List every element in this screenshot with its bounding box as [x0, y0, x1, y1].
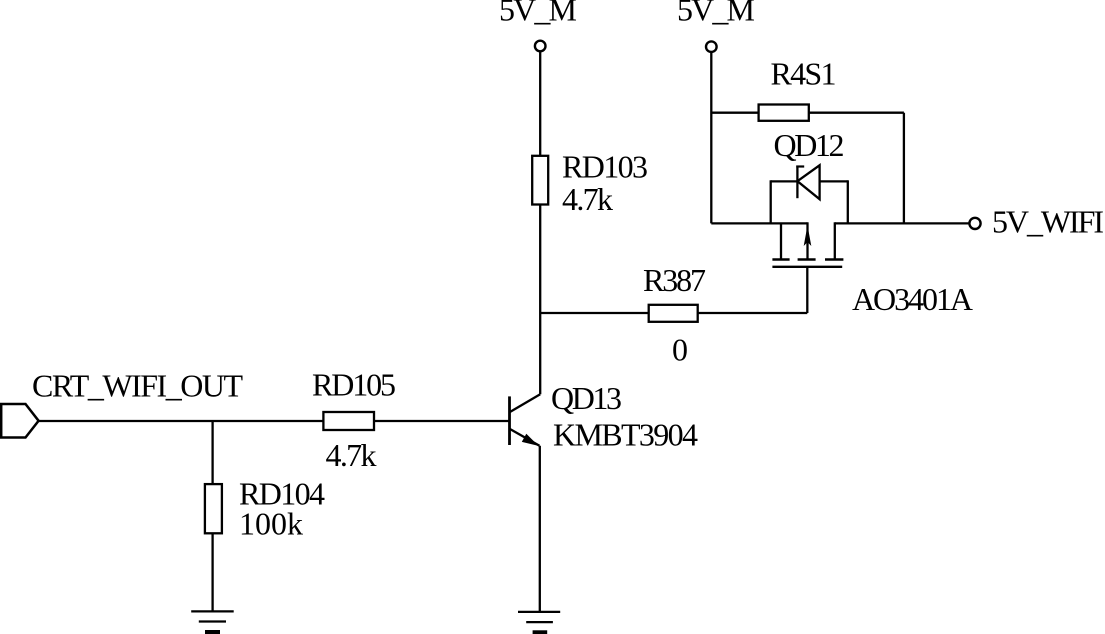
- svg-text:AO3401A: AO3401A: [852, 281, 973, 317]
- transistor QD12 body frame: [771, 180, 848, 223]
- transistor QD13 emitter lead with arrow: [510, 429, 540, 446]
- svg-text:0: 0: [672, 332, 688, 368]
- resistor R387: [649, 305, 698, 322]
- wire 5V_M to RD103 and down to collector: [539, 52, 541, 395]
- terminal circle 5V_M right: [706, 41, 717, 52]
- svg-text:R387: R387: [643, 262, 706, 298]
- wire emitter to ground: [539, 446, 541, 612]
- ground symbol left: [191, 611, 234, 634]
- terminal circle 5V_WIFI: [969, 218, 980, 229]
- svg-text:RD105: RD105: [312, 367, 396, 403]
- transistor QD12 source contact: [780, 223, 782, 259]
- wire R387 to gate wire: [698, 312, 808, 314]
- wire junction down to RD104: [211, 421, 213, 484]
- wire drain rail to 5V_WIFI: [835, 222, 970, 224]
- resistor RD105: [323, 412, 374, 430]
- svg-text:5V_M: 5V_M: [499, 0, 577, 28]
- terminal circle 5V_M left: [535, 41, 546, 52]
- svg-text:QD12: QD12: [774, 127, 845, 163]
- wire input to RD105: [39, 420, 324, 422]
- wire RD105 to base: [374, 420, 510, 422]
- transistor QD12 body contact with arrow: [804, 222, 812, 259]
- connector CRT_WIFI_OUT: [1, 404, 38, 438]
- svg-text:QD13: QD13: [551, 380, 622, 416]
- transistor QD13 base bar: [508, 396, 511, 445]
- wire collector node to R387: [540, 312, 649, 314]
- resistor R4S1: [711, 105, 904, 121]
- wire RD104 to ground: [211, 533, 213, 611]
- transistor QD12 PMOS body diode: [796, 165, 819, 199]
- svg-text:4.7k: 4.7k: [326, 437, 377, 473]
- transistor QD12 drain contact: [834, 222, 836, 259]
- wire 5V_M right vertical to source rail: [710, 52, 712, 223]
- svg-text:5V_WIFI: 5V_WIFI: [992, 204, 1104, 240]
- wire gate down to R387: [806, 267, 808, 313]
- svg-text:CRT_WIFI_OUT: CRT_WIFI_OUT: [32, 368, 243, 404]
- svg-text:4.7k: 4.7k: [562, 181, 613, 217]
- svg-text:100k: 100k: [239, 506, 303, 542]
- svg-text:KMBT3904: KMBT3904: [553, 417, 698, 453]
- svg-text:5V_M: 5V_M: [677, 0, 755, 28]
- transistor QD12 channel segments: [772, 258, 843, 261]
- wire source rail (5V_M side): [711, 222, 807, 224]
- svg-text:R4S1: R4S1: [771, 56, 837, 92]
- transistor QD13 collector lead: [510, 394, 541, 412]
- resistor RD104: [205, 484, 222, 533]
- svg-text:RD103: RD103: [562, 149, 648, 185]
- wire R4S1 right side down to drain rail: [903, 113, 905, 224]
- ground symbol emitter: [518, 612, 560, 634]
- resistor RD103: [532, 156, 548, 205]
- transistor QD12 gate line: [772, 266, 842, 268]
